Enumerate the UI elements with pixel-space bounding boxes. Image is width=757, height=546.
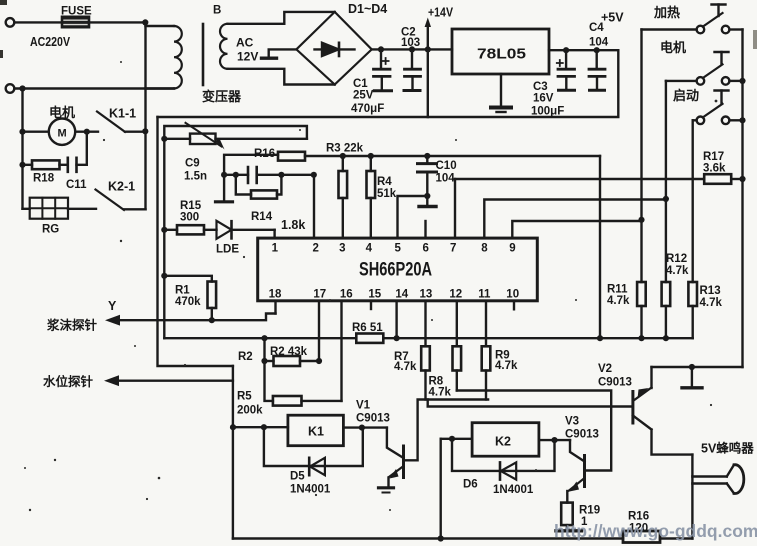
svg-text:加热: 加热 (653, 5, 680, 20)
svg-text:16V: 16V (533, 93, 554, 105)
svg-text:C4: C4 (589, 22, 604, 34)
svg-text:+14V: +14V (428, 6, 454, 20)
wire bridge out to 78L05 (372, 48, 452, 50)
wire V3 base net (457, 391, 611, 471)
bottom rail (233, 537, 623, 539)
node K1-1 right (142, 128, 148, 134)
wire pin8 to motor line (484, 200, 666, 239)
svg-text:470μF: 470μF (351, 103, 384, 115)
water probe arrow 水位探针 (117, 380, 233, 382)
svg-text:5: 5 (395, 243, 402, 255)
svg-text:http://www.go-gddq.com: http://www.go-gddq.com (554, 521, 757, 541)
node C1 top (378, 46, 384, 52)
svg-text:R1: R1 (175, 285, 190, 297)
svg-text:C10: C10 (436, 160, 457, 172)
switch K2-1 lever (96, 190, 125, 211)
svg-text:15: 15 (368, 289, 381, 301)
node thermistor left (161, 136, 167, 142)
svg-text:10: 10 (506, 289, 519, 301)
svg-text:R14: R14 (251, 211, 273, 223)
svg-text:7: 7 (450, 243, 456, 255)
transformer T1 secondary coil (220, 24, 228, 69)
svg-text:51k: 51k (377, 188, 397, 200)
scan specks (54, 459, 56, 461)
AC terminal L (open circle) (6, 18, 15, 27)
svg-text:+5V: +5V (601, 11, 624, 25)
node C2 top (409, 46, 415, 52)
SECTION_B (455, 5, 746, 368)
svg-text:1.5n: 1.5n (184, 171, 207, 183)
wire +5V line (549, 49, 618, 51)
diode LDE (217, 221, 232, 239)
svg-text:8: 8 (481, 243, 488, 255)
ground V1 (379, 486, 394, 489)
slurry foam probe arrow 浆沫探针 (118, 314, 276, 321)
svg-text:1N4001: 1N4001 (290, 484, 331, 496)
svg-text:R2: R2 (238, 351, 253, 363)
wire pin7 riser to R17 line (454, 179, 456, 238)
svg-text:4.7k: 4.7k (495, 360, 518, 372)
svg-text:11: 11 (478, 289, 491, 301)
wire V1 base net (405, 400, 488, 461)
wire pin2 drop (313, 175, 315, 238)
diode D6 (452, 439, 555, 471)
capacitor C2 (411, 49, 413, 67)
resistor R19 (561, 503, 573, 525)
wire N terminal to transformer (14, 87, 174, 89)
capacitor C3 (electrolytic) (565, 50, 567, 67)
svg-text:K2: K2 (495, 435, 511, 449)
pin numbers bottom (269, 289, 519, 301)
svg-text:K1-1: K1-1 (109, 107, 136, 121)
wire K1-1 to rail (125, 130, 146, 132)
wire V2 collector top line (652, 366, 743, 368)
node R1 top (161, 273, 167, 279)
svg-text:R11: R11 (607, 284, 628, 296)
svg-text:D6: D6 (463, 479, 478, 491)
resistor R4 (368, 153, 374, 159)
svg-text:14: 14 (395, 289, 408, 301)
svg-text:1.8k: 1.8k (281, 218, 305, 232)
SECTION_E (43, 273, 693, 417)
svg-text:3.6k: 3.6k (703, 163, 726, 175)
ground 78L05 (500, 74, 502, 106)
svg-text:6: 6 (423, 243, 429, 255)
svg-text:V2: V2 (598, 363, 612, 375)
switch K1-1 lever (97, 112, 125, 132)
pin10 stub (513, 301, 515, 310)
wire secondary top to bridge (228, 12, 335, 24)
fuse F1 (62, 17, 89, 27)
svg-text:1N4001: 1N4001 (493, 484, 534, 496)
wire V2 base net (428, 400, 632, 407)
svg-text:FUSE: FUSE (61, 6, 92, 18)
node busC-pin14 (394, 335, 400, 341)
svg-text:R3 22k: R3 22k (326, 143, 364, 155)
svg-text:水位探针: 水位探针 (43, 374, 94, 389)
svg-text:V1: V1 (356, 400, 371, 412)
wire right feedback drop (599, 156, 601, 338)
wire R2 to R5 (265, 361, 273, 401)
capacitor C10 (424, 153, 430, 159)
node busC-feedback (597, 335, 603, 341)
svg-text:V3: V3 (565, 416, 579, 428)
wire pin18 riser (274, 301, 276, 314)
node +14V feed (425, 46, 431, 52)
node pin2 branch (311, 172, 317, 178)
relay K2 (472, 423, 539, 457)
svg-text:100μF: 100μF (531, 106, 564, 118)
svg-text:AC220V: AC220V (30, 34, 70, 49)
node C9 left (221, 172, 227, 178)
svg-text:4.7k: 4.7k (394, 361, 417, 373)
wire pin17 riser (318, 301, 320, 361)
svg-text:12: 12 (449, 289, 462, 301)
switch S2 motor (697, 77, 705, 85)
svg-text:C9013: C9013 (565, 429, 599, 441)
svg-text:C1: C1 (353, 78, 368, 90)
svg-text:4.7k: 4.7k (429, 387, 452, 399)
svg-text:2: 2 (313, 243, 319, 255)
node C4 top (594, 47, 600, 53)
svg-text:4.7k: 4.7k (700, 297, 723, 309)
svg-text:B: B (213, 5, 221, 17)
heater RG (grid box) (23, 208, 30, 210)
motor M1 circle (49, 119, 75, 145)
node C9/R14 left (233, 172, 239, 178)
wire vertical mains L rail (144, 22, 146, 209)
bridge rectifier D1~D4 diamond (296, 12, 371, 85)
svg-text:M: M (58, 128, 67, 140)
ground R19 (556, 529, 582, 532)
svg-text:R18: R18 (33, 173, 55, 185)
resistor R1 (164, 276, 212, 282)
svg-text:C11: C11 (66, 179, 87, 191)
node C3 top (563, 47, 569, 53)
svg-text:R16: R16 (254, 148, 275, 160)
svg-text:3: 3 (339, 243, 345, 255)
wire inner top loop (164, 126, 307, 338)
wire pin1 drop (273, 230, 275, 238)
wire secondary bottom to bridge (228, 69, 335, 85)
wire C10 bottom to pin5 (398, 196, 428, 238)
wire R16 to C10 line (305, 155, 600, 157)
svg-text:R4: R4 (377, 176, 392, 188)
svg-text:4.7k: 4.7k (666, 265, 689, 277)
node R15 left (161, 227, 167, 233)
node C9/R14 right (278, 172, 284, 178)
regulator U2 78L05 (452, 29, 549, 74)
svg-text:R12: R12 (666, 253, 687, 265)
SECTION_C (158, 117, 601, 539)
transformer T1 primary coil (146, 25, 175, 27)
bridge left tap stub (269, 49, 297, 56)
thermistor RT (box with arrow) (164, 138, 190, 140)
wire K2 left drop to rail (440, 439, 442, 539)
pin15 stub (370, 301, 372, 309)
svg-text:电机: 电机 (660, 40, 686, 55)
svg-text:9: 9 (509, 243, 515, 255)
svg-text:18: 18 (269, 289, 282, 301)
bridge inner diode (315, 48, 355, 50)
svg-text:4: 4 (366, 243, 373, 255)
svg-text:13: 13 (420, 289, 433, 301)
wire start switch drop (692, 120, 694, 282)
svg-text:SH66P20A: SH66P20A (359, 260, 432, 281)
pin6 stub (424, 221, 426, 238)
IC U1 SH66P20A (258, 238, 538, 301)
scan artifact top-left corner (0, 0, 7, 5)
wire K2-1 right (124, 208, 146, 210)
svg-text:200k: 200k (237, 405, 263, 417)
resistor R14 (236, 175, 251, 195)
wire probe vertical to bottom rail (232, 366, 234, 539)
wire heat switch drop (640, 30, 642, 220)
wire pin16 riser (340, 301, 342, 401)
switch S1 heat (697, 26, 705, 34)
wire board left edge down to probe jog (158, 117, 233, 366)
node busC-R2 (261, 335, 267, 341)
svg-text:C9013: C9013 (598, 377, 632, 389)
svg-text:RG: RG (42, 224, 59, 236)
svg-text:启动: 启动 (673, 88, 699, 103)
svg-text:C9013: C9013 (356, 413, 390, 425)
svg-text:25V: 25V (353, 90, 374, 102)
svg-text:Y: Y (108, 299, 117, 313)
svg-text:K1: K1 (308, 425, 324, 439)
ground V2 line (691, 367, 693, 386)
svg-text:R15: R15 (180, 200, 202, 212)
svg-text:103: 103 (401, 37, 420, 49)
node fuse-right junction (142, 19, 148, 25)
wire motor switch drop (665, 81, 667, 199)
svg-text:4.7k: 4.7k (607, 295, 630, 307)
switch S3 start (697, 117, 705, 125)
wire power bottom rail (158, 50, 619, 117)
diode D5 (264, 427, 363, 466)
wire bus line C (164, 337, 692, 339)
capacitor C1 (electrolytic) (380, 49, 382, 67)
svg-text:D1~D4: D1~D4 (348, 2, 387, 16)
wire motor left (23, 130, 49, 132)
svg-text:1: 1 (272, 243, 279, 255)
SECTION_F (230, 301, 754, 543)
node rail-R17 (739, 176, 745, 182)
+14V arrow (427, 24, 429, 47)
ground C9 node (223, 175, 225, 200)
right rail (741, 30, 743, 368)
wire fuse to junction (89, 21, 146, 23)
SECTION_A (146, 2, 625, 118)
wire pin14 riser (395, 301, 397, 338)
relay K1 (288, 415, 344, 446)
svg-text:R13: R13 (700, 285, 721, 297)
svg-text:R19: R19 (579, 505, 600, 517)
svg-text:浆沫探针: 浆沫探针 (46, 318, 98, 333)
node busC-R11 (638, 335, 644, 341)
wire buzzer feed (691, 455, 693, 539)
ground C10 (426, 196, 428, 205)
wire left vertical branch (21, 89, 23, 209)
capacitor C4 (596, 50, 598, 67)
svg-text:C3: C3 (533, 81, 548, 93)
svg-text:16: 16 (340, 289, 353, 301)
svg-text:LDE: LDE (216, 244, 239, 256)
AC terminal N (open circle) (6, 84, 15, 93)
node rail-S3 (739, 117, 745, 123)
svg-text:C9: C9 (185, 158, 200, 170)
node R1 bottom (209, 317, 215, 323)
node N junction (19, 85, 25, 91)
node busC-R12 (663, 335, 669, 341)
resistor R16 (bottom) (623, 531, 660, 543)
wire L terminal to fuse (14, 21, 63, 23)
svg-text:变压器: 变压器 (202, 89, 242, 104)
svg-text:104: 104 (436, 173, 456, 185)
wire motor right (75, 130, 98, 132)
svg-text:17: 17 (313, 289, 326, 301)
wire R16 feedback line (224, 155, 278, 175)
svg-text:5V蜂鸣器: 5V蜂鸣器 (701, 441, 754, 456)
svg-text:K2-1: K2-1 (108, 180, 135, 194)
svg-text:12V: 12V (237, 50, 258, 64)
capacitor C11 (68, 158, 77, 172)
svg-text:470k: 470k (175, 296, 201, 308)
svg-text:78L05: 78L05 (477, 46, 526, 63)
node R18 left (19, 162, 25, 168)
transformer core (202, 24, 205, 85)
node motor line left (19, 129, 25, 135)
svg-text:D5: D5 (290, 471, 305, 483)
svg-text:AC: AC (236, 36, 254, 50)
SECTION_G (554, 521, 757, 541)
SECTION_D (258, 238, 538, 309)
node motor right (84, 129, 90, 135)
node rail-S2 (739, 78, 745, 84)
wire pin9 to heat line (512, 221, 641, 238)
svg-text:104: 104 (589, 37, 609, 49)
svg-text:300: 300 (180, 212, 199, 224)
pin numbers top (272, 243, 516, 255)
wire +14V down feed (427, 49, 429, 117)
resistor R18 (23, 164, 33, 166)
svg-text:R17: R17 (703, 151, 724, 163)
svg-text:R5: R5 (237, 391, 252, 403)
